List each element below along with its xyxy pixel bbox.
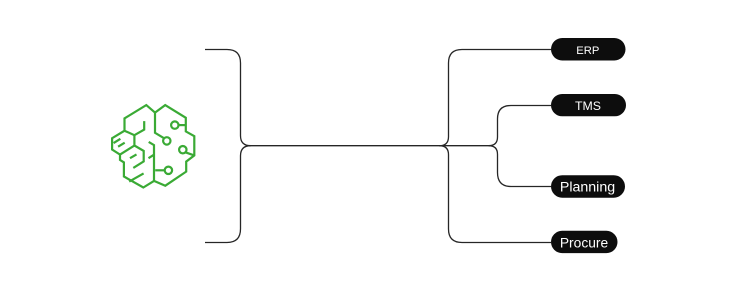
brain: node C3 connector (185, 152, 194, 155)
brain: medial line upper (155, 113, 164, 139)
AI brain circuit icon (112, 105, 194, 187)
brain: inner chevron bump slash 2 (118, 143, 125, 147)
svg-text:TMS: TMS (575, 99, 601, 113)
wire: fork to TMS (489, 106, 551, 146)
brain: medial bump notch (149, 155, 155, 159)
brain: node circle C2 (163, 137, 170, 144)
brain: node C1 connector (179, 124, 186, 126)
brain: left hemisphere outline (112, 105, 155, 187)
brain: node circle C3 (179, 146, 186, 153)
brain: inner chevron mid (130, 154, 137, 158)
node TMS pill (551, 94, 626, 116)
brain: right hemisphere outline (154, 105, 194, 186)
svg-text:Planning: Planning (560, 180, 615, 196)
wire: left bracket top branch (205, 50, 251, 146)
brain: inner chevron lower (129, 173, 143, 181)
wire: left bracket bottom branch (205, 146, 251, 243)
brain: inner stub and Y junction (125, 121, 145, 135)
wire: fork to ERP (439, 50, 551, 146)
node ERP pill (551, 38, 626, 61)
svg-text:ERP: ERP (576, 45, 599, 57)
brain: node circle C1 (171, 121, 178, 128)
wire: fork to Procure (439, 146, 551, 243)
brain: node C4 connector (155, 169, 165, 171)
wire: center trunk (246, 145, 490, 147)
brain: inner maze right branch (133, 146, 143, 168)
brain: inner chevron bump slash 1 (114, 139, 121, 143)
wire: fork to Planning (489, 146, 551, 187)
brain: node circle C4 (165, 167, 172, 174)
node Planning pill (551, 175, 625, 198)
svg-text:Procure: Procure (560, 236, 609, 251)
brain: medial line lower (149, 142, 154, 181)
brain: inner maze center vertical (120, 135, 134, 154)
node Procure pill (551, 231, 618, 253)
